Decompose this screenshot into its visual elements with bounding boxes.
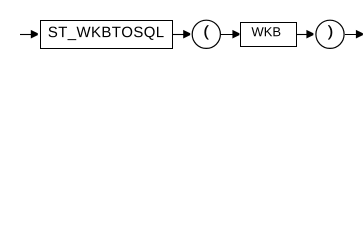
circle ( bbox=[192, 20, 220, 48]
box ST_WKBTOSQL bbox=[41, 21, 173, 49]
wire box WKB to circle2 bbox=[297, 34, 312, 36]
exit arrowhead bbox=[356, 30, 363, 39]
label ( bbox=[205, 25, 209, 39]
label ST_WKBTOSQL bbox=[49, 27, 164, 40]
arrowhead before box WKB bbox=[232, 30, 239, 39]
arrowhead before circle2 bbox=[306, 30, 313, 39]
entry arrowhead bbox=[31, 30, 38, 39]
wire circle1 to box WKB bbox=[221, 34, 238, 36]
arrowhead before circle1 bbox=[183, 30, 190, 39]
wire box1 to circle1 bbox=[173, 34, 189, 36]
wire exit line bbox=[345, 34, 362, 36]
label WKB bbox=[252, 27, 281, 36]
box WKB bbox=[241, 23, 297, 47]
circle ) bbox=[316, 20, 344, 48]
wire entry line bbox=[20, 34, 36, 36]
label ) bbox=[328, 25, 332, 39]
